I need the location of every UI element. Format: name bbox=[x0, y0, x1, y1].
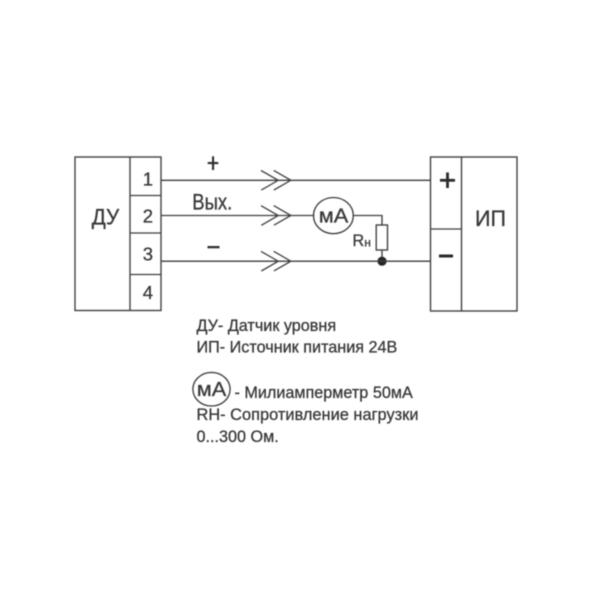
ИП plus terminal symbol bbox=[440, 173, 455, 189]
sensor box ДУ (outer rectangle) bbox=[75, 157, 161, 311]
svg-text:ИП- Источник питания 24В: ИП- Источник питания 24В bbox=[197, 338, 398, 356]
label − (above wire) bbox=[208, 246, 220, 248]
svg-text:- Милиамперметр 50мА: - Милиамперметр 50мА bbox=[235, 384, 413, 402]
svg-text:мА: мА bbox=[319, 206, 349, 228]
wire Вых : pin2 to milliammeter bbox=[161, 215, 314, 217]
svg-text:RН- Сопротивление нагрузки: RН- Сопротивление нагрузки bbox=[197, 406, 419, 424]
divider pin3/pin4 bbox=[130, 274, 161, 276]
arrow chevrons on wire + bbox=[261, 170, 291, 190]
svg-text:мА: мА bbox=[197, 379, 227, 401]
label + (above wire) bbox=[208, 156, 219, 170]
svg-text:ИП: ИП bbox=[475, 206, 506, 231]
junction node dot bbox=[377, 257, 386, 266]
wire + : pin1 to ИП plus terminal bbox=[161, 179, 431, 181]
ДУ terminal column divider bbox=[129, 157, 131, 311]
wire − : pin3 to ИП minus terminal bbox=[161, 260, 431, 262]
ИП divider between + and − cells bbox=[431, 228, 462, 230]
divider pin2/pin3 bbox=[130, 232, 161, 234]
svg-text:4: 4 bbox=[143, 282, 153, 303]
svg-text:Вых.: Вых. bbox=[192, 189, 232, 214]
legend milliammeter symbol circle bbox=[193, 372, 230, 406]
ИП terminal column divider bbox=[461, 157, 463, 311]
svg-text:3: 3 bbox=[143, 243, 153, 264]
arrow chevrons on wire − bbox=[261, 251, 291, 271]
divider pin1/pin2 bbox=[130, 195, 161, 197]
power supply box ИП (outer rectangle) bbox=[431, 157, 518, 311]
svg-text:2: 2 bbox=[143, 205, 153, 226]
ИП minus terminal symbol bbox=[439, 255, 453, 258]
svg-text:0...300 Ом.: 0...300 Ом. bbox=[197, 428, 279, 446]
wire milliammeter to resistor top bbox=[353, 216, 382, 225]
resistor Rн bbox=[376, 225, 387, 250]
svg-text:Rн: Rн bbox=[353, 232, 371, 250]
svg-text:ДУ- Датчик уровня: ДУ- Датчик уровня bbox=[197, 317, 337, 335]
arrow chevrons on wire Вых bbox=[261, 206, 291, 226]
svg-text:1: 1 bbox=[143, 168, 153, 189]
svg-text:ДУ: ДУ bbox=[92, 204, 120, 229]
milliammeter PA1 bbox=[314, 198, 354, 234]
wire resistor bottom to node bbox=[381, 251, 383, 262]
